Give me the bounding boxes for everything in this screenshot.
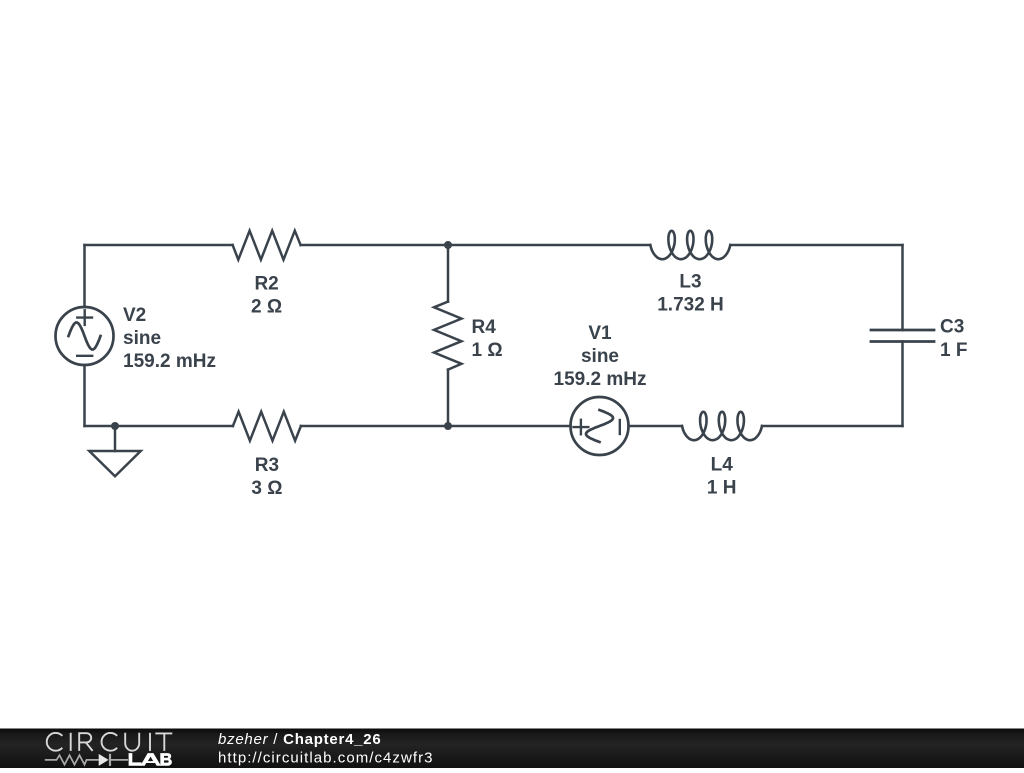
node junction bottom-mid [444, 422, 452, 430]
svg-text:sine: sine [123, 328, 161, 349]
svg-text:sine: sine [581, 346, 619, 367]
voltage source V2 [56, 307, 114, 365]
svg-text:1.732 H: 1.732 H [657, 295, 724, 316]
svg-text:159.2 mHz: 159.2 mHz [123, 351, 216, 372]
svg-text:3 Ω: 3 Ω [251, 478, 282, 499]
svg-text:http://circuitlab.com/c4zwfr3: http://circuitlab.com/c4zwfr3 [218, 749, 434, 766]
svg-text:R2: R2 [254, 274, 278, 295]
label L4 value 1 H [707, 455, 737, 499]
wire left rail lower (corner to V2) [83, 365, 86, 426]
capacitor C3 [871, 330, 934, 342]
svg-text:V1: V1 [588, 323, 612, 344]
wire R4 bottom stem [447, 370, 450, 426]
svg-text:R3: R3 [255, 455, 279, 476]
footer url [218, 749, 434, 766]
svg-text:R4: R4 [472, 317, 497, 338]
logo LAB text [129, 753, 172, 766]
svg-text:159.2 mHz: 159.2 mHz [554, 369, 647, 390]
footer title bzeher / Chapter4_26 [218, 731, 381, 748]
wire L4 to V1 [629, 425, 683, 428]
svg-text:L3: L3 [679, 272, 701, 293]
node junction top-mid [444, 241, 452, 249]
wire R3 to bottom-left corner [85, 425, 233, 428]
footer bar [0, 729, 1024, 769]
svg-text:1 H: 1 H [707, 478, 737, 499]
ground symbol [89, 451, 140, 476]
svg-text:L4: L4 [711, 455, 734, 476]
ground stem [114, 426, 117, 451]
wire left rail upper (V2 to corner) [83, 245, 86, 307]
voltage source V1 [571, 397, 629, 455]
inductor L3 [650, 231, 730, 259]
wire L3 to top-right corner [730, 244, 902, 247]
label V1 [554, 323, 647, 390]
wire R4 top stem [447, 245, 450, 302]
resistor R3 [233, 412, 301, 441]
wire R2 to mid node [301, 244, 448, 247]
label L3 value 1.732 H [657, 272, 724, 316]
label R4 value 1 ohm [472, 317, 503, 361]
svg-text:2 Ω: 2 Ω [251, 297, 282, 318]
label R2 value 2 ohm [251, 274, 282, 318]
inductor L4 [682, 412, 762, 440]
logo resistor-diode symbol [45, 754, 128, 766]
resistor R4 [434, 302, 462, 370]
label C3 value 1 F [940, 317, 967, 362]
svg-text:C3: C3 [940, 317, 964, 338]
svg-text:1 Ω: 1 Ω [472, 340, 503, 361]
logo diode triangle [99, 754, 109, 766]
svg-text:V2: V2 [123, 305, 146, 326]
node junction ground [111, 422, 119, 430]
label V2 [123, 305, 216, 372]
wire right rail upper (corner to C3) [901, 245, 904, 330]
svg-text:1 F: 1 F [940, 340, 967, 361]
wire V1 to R3 [301, 425, 571, 428]
label R3 value 3 ohm [251, 455, 282, 499]
wire bottom-right (corner to L4) [762, 425, 903, 428]
svg-text:bzeher / Chapter4_26: bzeher / Chapter4_26 [218, 731, 381, 748]
logo CIRCUIT lettering [47, 733, 173, 751]
wire mid node to L3 [448, 244, 650, 247]
resistor R2 [233, 231, 301, 260]
wire right rail lower (C3 to corner) [901, 342, 904, 427]
wire top-left horizontal (node to R2) [85, 244, 233, 247]
